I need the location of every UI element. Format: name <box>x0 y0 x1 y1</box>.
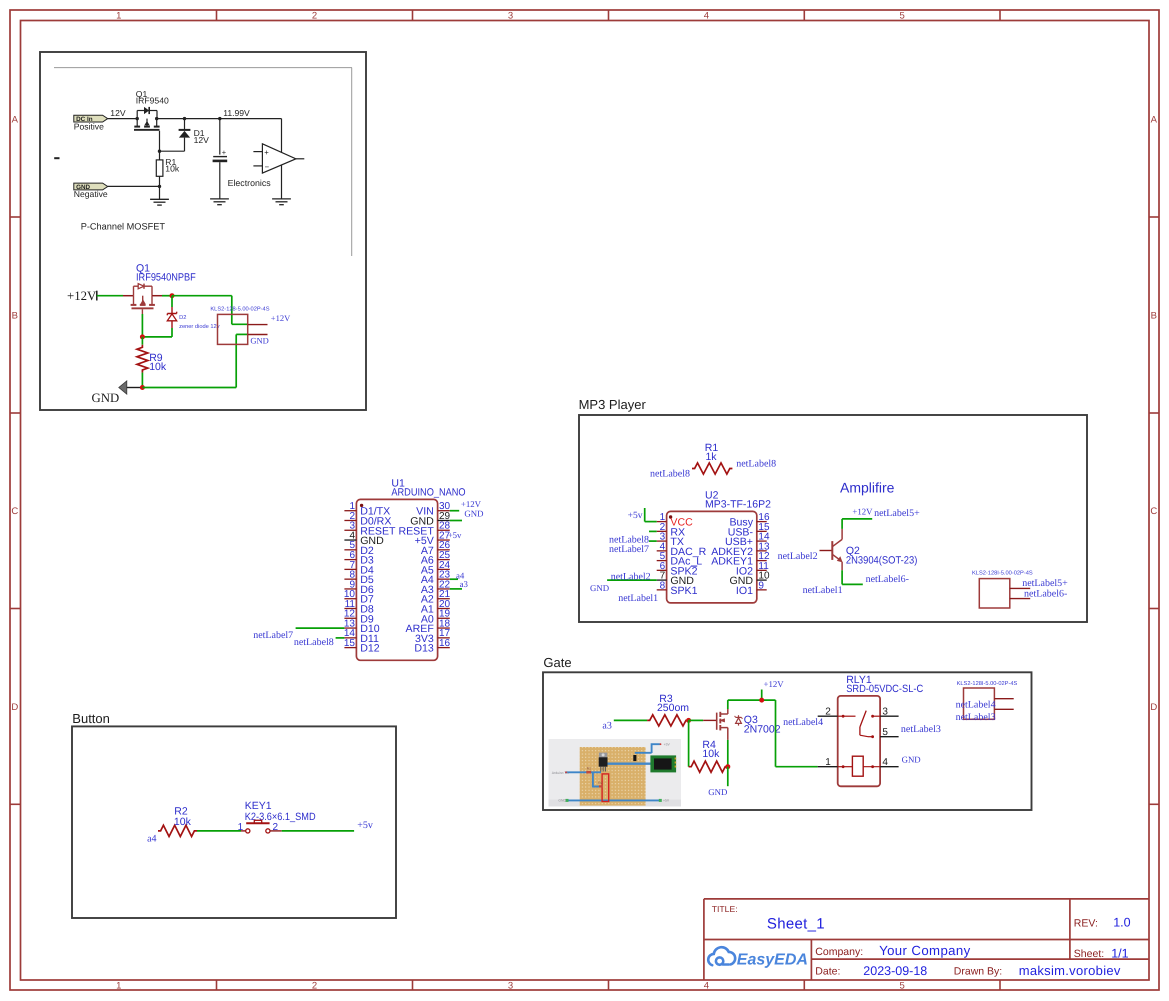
svg-text:netLabel4: netLabel4 <box>956 700 996 711</box>
net flag GND Negative (picture) <box>74 183 108 190</box>
U1 pin 6 (D3) <box>344 559 356 561</box>
wire GND to R1 (picture) <box>108 185 160 187</box>
U2 pin 10 (GND) <box>757 579 767 581</box>
svg-text:2: 2 <box>312 981 317 992</box>
U2 pin 16 (Busy) <box>757 521 767 523</box>
svg-text:P-Channel MOSFET: P-Channel MOSFET <box>81 221 166 231</box>
svg-text:+12V: +12V <box>764 679 785 689</box>
svg-text:2: 2 <box>825 706 831 717</box>
IC U1 pin 1 marker dot <box>360 504 363 507</box>
ground under capacitor (picture) <box>210 198 229 200</box>
wire a3 to R3 <box>614 719 647 721</box>
svg-text:netLabel5+: netLabel5+ <box>1022 578 1068 589</box>
svg-text:R2: R2 <box>598 781 602 785</box>
svg-text:2: 2 <box>312 11 317 22</box>
U1 pin 12 (D9) <box>344 617 356 619</box>
resistor R2 10k <box>158 825 197 836</box>
ground under R1 (picture) <box>159 186 161 199</box>
photo blue wire upper <box>635 752 652 754</box>
svg-text:GND: GND <box>902 755 921 765</box>
svg-text:+5v: +5v <box>628 511 643 521</box>
net flag DC In (picture) <box>74 115 108 122</box>
svg-text:Sheet_1: Sheet_1 <box>767 916 825 933</box>
svg-text:1: 1 <box>825 757 831 768</box>
svg-text:R1: R1 <box>587 766 591 770</box>
frame column ticks top <box>216 10 218 21</box>
svg-text:a4: a4 <box>147 833 156 844</box>
relay pin 1 stub <box>818 766 838 768</box>
title block divider REV column <box>1069 899 1071 959</box>
wire R2 to KEY1 <box>197 830 241 832</box>
svg-text:netLabel6-: netLabel6- <box>866 574 909 585</box>
wire U2 pin 2 stub <box>649 530 657 532</box>
svg-text:1: 1 <box>116 981 121 992</box>
U1 pin 10 (D7) <box>344 598 356 600</box>
title block divider Date row <box>811 958 1148 960</box>
embedded picture right border line <box>351 68 353 256</box>
svg-text:SPK1: SPK1 <box>670 585 697 597</box>
photo transistor TO-220 <box>599 753 607 758</box>
U1 pin 11 (D8) <box>344 608 356 610</box>
wire GND rail to connector pin 2 <box>142 387 236 389</box>
U1 pin 30 (VIN) <box>438 510 450 512</box>
wire Q2 collector to netLabel5+ <box>841 519 843 529</box>
svg-text:+5V: +5V <box>664 743 671 747</box>
svg-text:5: 5 <box>900 981 905 992</box>
connector pin 2 stub (Gate KLS2) <box>994 708 1013 710</box>
svg-text:netLabel7: netLabel7 <box>253 630 293 641</box>
svg-text:Gate: Gate <box>543 655 571 670</box>
relay pin 3 stub <box>880 715 899 717</box>
svg-text:netLabel2: netLabel2 <box>611 572 651 583</box>
switch KEY1 symbol <box>241 830 246 832</box>
U1 pin 26 (A7) <box>438 549 450 551</box>
svg-text:IO1: IO1 <box>736 585 753 597</box>
U2 pin 3 (TX) <box>657 540 667 542</box>
capacitor with + (picture) <box>219 119 221 155</box>
wire U1 pin 13 netLabel7 <box>296 627 345 629</box>
U1 pin 3 (RESET) <box>344 529 356 531</box>
box Button border <box>72 726 396 918</box>
svg-text:netLabel4: netLabel4 <box>783 717 823 728</box>
U1 pin 21 (A2) <box>438 598 450 600</box>
svg-text:SRD-05VDC-SL-C: SRD-05VDC-SL-C <box>846 683 923 695</box>
wire D1 to Q1 drain (picture) <box>160 150 185 152</box>
U1 pin 28 (RESET) <box>438 529 450 531</box>
relay pin 5 stub <box>880 736 899 738</box>
svg-text:8: 8 <box>660 580 666 591</box>
wire Q3 source down <box>727 740 729 767</box>
U1 pin 8 (D5) <box>344 578 356 580</box>
svg-text:250om: 250om <box>657 702 689 714</box>
svg-text:D13: D13 <box>414 643 434 655</box>
resistor R3 250om <box>647 715 689 726</box>
IC U1 body <box>356 499 437 660</box>
svg-text:+12V: +12V <box>67 289 97 303</box>
U1 pin 7 (D4) <box>344 568 356 570</box>
svg-text:KLS2-128I-5.00-02P-4S: KLS2-128I-5.00-02P-4S <box>972 570 1033 576</box>
svg-text:+12V: +12V <box>852 507 873 517</box>
U2 pin 7 (GND) <box>657 579 667 581</box>
photo black capacitor <box>633 755 636 761</box>
svg-text:D2: D2 <box>179 315 186 321</box>
svg-text:netLabel3: netLabel3 <box>901 724 941 735</box>
transistor Q2 2N3904(SOT-23) <box>820 550 833 552</box>
svg-text:GND: GND <box>558 799 566 803</box>
wire to GND flag (Gate) <box>727 767 729 787</box>
wire U1 pin 23 to a4 <box>450 578 458 580</box>
svg-text:netLabel7: netLabel7 <box>609 544 649 555</box>
U1 pin 1 (D1/TX) <box>344 510 356 512</box>
junction node R4 / Q3 source / GND <box>725 764 730 769</box>
title block divider below TITLE row <box>704 939 1149 941</box>
svg-text:netLabel1: netLabel1 <box>618 593 658 604</box>
svg-text:4: 4 <box>704 11 709 22</box>
U1 pin 9 (D6) <box>344 588 356 590</box>
svg-text:GND: GND <box>464 509 483 519</box>
box Gate border <box>543 672 1032 810</box>
junction dots on input rail (picture) <box>136 117 139 120</box>
junction node Q1 drain to +12V rail <box>170 293 175 298</box>
IC U2 pin 1 marker dot <box>669 515 672 518</box>
wire Q3 drain to +12V rail <box>727 700 729 709</box>
U2 pin 4 (DAC_R) <box>657 550 667 552</box>
svg-text:C: C <box>11 506 18 517</box>
U1 pin 16 (D13) <box>438 647 450 649</box>
svg-text:1/1: 1/1 <box>1111 946 1128 960</box>
svg-text:5: 5 <box>900 11 905 22</box>
svg-text:EasyEDA: EasyEDA <box>737 951 808 968</box>
frame row ticks left <box>10 216 21 218</box>
connector pin 1 stub <box>248 324 268 326</box>
U2 pin 6 (SPK2) <box>657 569 667 571</box>
svg-text:+12V: +12V <box>271 313 291 323</box>
svg-text:D: D <box>11 702 18 713</box>
svg-text:4: 4 <box>882 757 888 768</box>
svg-text:Button: Button <box>72 711 110 726</box>
svg-text:9: 9 <box>758 580 764 591</box>
relay switch contacts <box>842 715 845 718</box>
U1 pin 14 (D11) <box>344 637 356 639</box>
svg-text:MP3-TF-16P2: MP3-TF-16P2 <box>705 499 771 511</box>
photo small resistor R1 <box>586 771 591 774</box>
U1 pin 23 (A4) <box>438 578 450 580</box>
wire 12V rail (picture) <box>157 118 282 120</box>
U2 pin 13 (ADKEY2) <box>757 550 767 552</box>
relay RLY1 body <box>838 696 880 786</box>
resistor R1 10k (picture) <box>159 151 161 160</box>
svg-text:B: B <box>12 310 18 321</box>
svg-text:10k: 10k <box>149 361 167 373</box>
op-amp Electronics (picture) <box>262 144 296 173</box>
svg-text:netLabel2: netLabel2 <box>778 551 818 562</box>
U2 pin 1 (VCC) <box>657 521 667 523</box>
wire D2 anode to drain node <box>142 336 172 338</box>
photo breadboard background <box>549 739 682 807</box>
junction node drain / D2 / R9 <box>140 334 145 339</box>
svg-text:Arduino TX: Arduino TX <box>552 771 570 775</box>
title block outer lines <box>704 898 1149 900</box>
resistor R4 10k <box>688 720 690 766</box>
net flag +12V (Gate) <box>761 690 763 701</box>
svg-text:2N3904(SOT-23): 2N3904(SOT-23) <box>846 554 918 566</box>
svg-text:GND: GND <box>250 336 268 346</box>
U1 pin 4 (GND) <box>344 539 356 541</box>
connector pin 1 stub (Gate KLS2) <box>994 698 1013 700</box>
svg-text:2023-09-18: 2023-09-18 <box>863 964 927 978</box>
U2 pin 2 (RX) <box>657 530 667 532</box>
svg-text:REV:: REV: <box>1074 917 1098 929</box>
wire U1 pin 14 netLabel8 <box>336 637 345 639</box>
svg-text:A: A <box>12 114 19 125</box>
EasyEDA logo cloud <box>708 947 735 965</box>
svg-text:Your Company: Your Company <box>879 943 971 958</box>
U1 pin 18 (AREF) <box>438 627 450 629</box>
wire Q2 emitter to netLabel6- <box>841 570 843 584</box>
svg-text:MP3 Player: MP3 Player <box>579 397 647 412</box>
frame row ticks right <box>1149 216 1160 218</box>
svg-text:1.0: 1.0 <box>1113 916 1130 930</box>
svg-text:KLS2-128I-5.00-02P-4S: KLS2-128I-5.00-02P-4S <box>957 681 1018 687</box>
ground under op-amp (picture) <box>272 198 291 200</box>
title block divider logo column <box>810 940 812 980</box>
wire KEY1 pin2 to +5v <box>270 830 282 832</box>
U1 pin 29 (GND) <box>438 519 450 521</box>
svg-text:Negative: Negative <box>74 189 108 199</box>
svg-text:+12V: +12V <box>461 499 482 509</box>
svg-text:15: 15 <box>344 638 356 649</box>
relay coil <box>852 756 863 776</box>
wire U1 pin 30 to +12V <box>450 510 459 512</box>
svg-text:+: + <box>222 148 227 157</box>
U2 pin 12 (ADKEY1) <box>757 560 767 562</box>
wire U1 pin 29 to GND <box>450 520 462 522</box>
photo green PCB module <box>650 755 676 772</box>
U2 pin 9 (IO1) <box>757 589 767 591</box>
wire DC In to Q1 (picture) <box>108 118 138 120</box>
svg-text:ARDUINO_NANO: ARDUINO_NANO <box>391 487 465 499</box>
svg-text:a3: a3 <box>460 579 469 589</box>
resistor R9 10k <box>141 337 143 345</box>
photo bottom blue wire <box>567 799 660 801</box>
svg-text:Positive: Positive <box>74 121 104 131</box>
svg-text:maksim.vorobiev: maksim.vorobiev <box>1019 963 1121 978</box>
svg-text:Electronics: Electronics <box>228 178 272 188</box>
embedded picture top border line <box>54 67 352 69</box>
transistor Q1 P-MOSFET (picture) <box>137 110 144 112</box>
svg-text:16: 16 <box>439 638 451 649</box>
svg-text:10k: 10k <box>165 164 180 174</box>
U2 pin 8 (SPK1) <box>657 589 667 591</box>
U1 pin 27 (+5V) <box>438 539 450 541</box>
wire rail down to op-amp (picture) <box>281 119 283 199</box>
svg-text:netLabel1: netLabel1 <box>803 585 843 596</box>
svg-text:netLabel8: netLabel8 <box>650 468 690 479</box>
svg-text:12V: 12V <box>110 108 126 118</box>
svg-text:Drawn By:: Drawn By: <box>954 966 1002 978</box>
wire +5v to U2 pin 1 <box>644 508 646 522</box>
svg-text:3: 3 <box>508 981 513 992</box>
wire junction to Q3 gate <box>689 719 704 721</box>
svg-text:Amplifire: Amplifire <box>840 479 895 495</box>
wire Q1 drain down <box>141 314 143 337</box>
U1 pin 17 (3V3) <box>438 637 450 639</box>
photo red highlight rectangle <box>602 774 609 802</box>
svg-text:A: A <box>1151 114 1158 125</box>
svg-text:D: D <box>1150 702 1157 713</box>
wire U2 pin 7 netLabel2 <box>607 579 657 581</box>
box MP3 Player border <box>579 415 1087 622</box>
photo blue wire to PCB <box>604 763 652 765</box>
photo blue wire left <box>565 771 601 773</box>
U2 pin 14 (USB+) <box>757 540 767 542</box>
U2 pin 5 (DAc_L) <box>657 560 667 562</box>
transistor Q3 2N7002 <box>703 719 717 721</box>
svg-text:1: 1 <box>238 822 244 833</box>
box P-Channel MOSFET group border <box>40 52 366 410</box>
U2 pin 15 (USB-) <box>757 530 767 532</box>
relay pin 4 stub <box>880 766 899 768</box>
frame column ticks bottom <box>216 980 218 990</box>
svg-text:10k: 10k <box>702 748 720 760</box>
svg-text:netLabel8: netLabel8 <box>294 637 334 648</box>
wire +12V rail down to relay pin1 <box>775 700 777 767</box>
svg-text:netLabel6-: netLabel6- <box>1024 588 1067 599</box>
svg-text:1k: 1k <box>705 451 717 463</box>
svg-text:D12: D12 <box>360 643 380 655</box>
junction node R3 / R4 / Q3 gate <box>686 718 691 723</box>
svg-text:Company:: Company: <box>815 946 863 958</box>
U1 pin 2 (D0/RX) <box>344 519 356 521</box>
diode D1 zener (picture) <box>184 119 186 129</box>
svg-text:TITLE:: TITLE: <box>712 904 738 914</box>
svg-text:GND: GND <box>92 391 120 405</box>
svg-text:11.99V: 11.99V <box>223 108 250 118</box>
transistor Q1 P-MOSFET symbol <box>123 295 134 297</box>
svg-text:a3: a3 <box>602 721 611 732</box>
photo blue wire L-shape <box>593 772 600 786</box>
svg-text:netLabel3: netLabel3 <box>956 712 996 723</box>
junction node +12V rail <box>759 698 764 703</box>
wire +12V to Q1 <box>97 295 123 297</box>
U2 pin 11 (IO2) <box>757 569 767 571</box>
svg-text:KLS2-128-5.00-02P-4S: KLS2-128-5.00-02P-4S <box>210 306 269 312</box>
wire +12V rail to connector pin 1 <box>172 295 232 297</box>
diode D2 zener <box>171 296 173 307</box>
svg-text:+5V: +5V <box>663 799 670 803</box>
resistor R1 1k <box>692 463 732 474</box>
wire U1 pin 22 to a3 <box>450 588 462 590</box>
svg-text:Sheet:: Sheet: <box>1074 948 1104 960</box>
svg-text:12V: 12V <box>194 135 210 145</box>
relay pin 2 stub <box>818 715 838 717</box>
svg-text:K2-3.6×6.1_SMD: K2-3.6×6.1_SMD <box>245 811 316 823</box>
connector pin 1 stub (MP3 KLS2) <box>1010 587 1030 589</box>
svg-text:zener diode 12v: zener diode 12v <box>179 323 220 330</box>
svg-text:10k: 10k <box>174 816 192 828</box>
U1 pin 20 (A1) <box>438 608 450 610</box>
svg-text:IRF9540NPBF: IRF9540NPBF <box>136 271 196 283</box>
svg-text:C: C <box>1150 506 1157 517</box>
svg-text:4: 4 <box>704 981 709 992</box>
svg-text:GND: GND <box>590 583 609 593</box>
svg-text:+5v: +5v <box>448 530 462 540</box>
photo small resistor R2 <box>599 785 603 787</box>
U1 pin 24 (A5) <box>438 568 450 570</box>
svg-text:netLabel8: netLabel8 <box>736 459 776 470</box>
svg-text:3: 3 <box>508 11 513 22</box>
U1 pin 25 (A6) <box>438 559 450 561</box>
connector pin 2 stub (MP3 KLS2) <box>1010 598 1030 600</box>
svg-text:3: 3 <box>882 706 888 717</box>
svg-text:1: 1 <box>116 11 121 22</box>
svg-text:Date:: Date: <box>815 966 840 978</box>
svg-text:IRF9540: IRF9540 <box>136 96 169 106</box>
svg-text:+5v: +5v <box>357 820 373 831</box>
U1 pin 15 (D12) <box>344 647 356 649</box>
svg-text:GND: GND <box>708 787 727 797</box>
crop dash mark <box>54 157 59 159</box>
U1 pin 5 (D2) <box>344 549 356 551</box>
IC U2 body <box>667 511 757 603</box>
svg-text:+: + <box>264 148 269 157</box>
photo blue wire top right <box>652 744 660 753</box>
svg-text:netLabel5+: netLabel5+ <box>874 508 920 519</box>
junction node GND / R9 <box>140 385 145 390</box>
svg-text:−: − <box>265 162 270 171</box>
svg-text:B: B <box>1151 310 1157 321</box>
svg-text:5: 5 <box>882 727 888 738</box>
U1 pin 13 (D10) <box>344 627 356 629</box>
connector pin 2 stub <box>248 334 268 336</box>
wire U2 pin 3 stub <box>649 540 657 542</box>
U1 pin 19 (A0) <box>438 617 450 619</box>
U1 pin 22 (A3) <box>438 588 450 590</box>
